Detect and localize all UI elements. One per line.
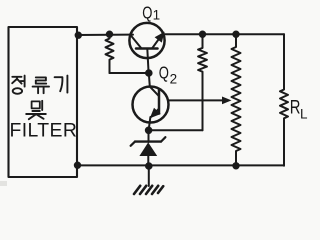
svg-text:FILTER: FILTER [10,119,79,141]
transistor Q1 [129,23,164,73]
svg-text:L: L [300,107,308,122]
scan smudge [0,181,7,186]
wiper arrowhead [222,97,232,105]
junction dot VR top [233,32,238,37]
resistor R1 [106,34,114,73]
transistor Q2 [133,73,169,130]
junction dot ground node [146,163,152,169]
label 정류기 (gi) [55,76,68,93]
wire top rail left (input) [77,34,133,36]
junction dot zener top node [146,128,152,134]
node A junction dot [146,70,152,76]
svg-text:2: 2 [170,71,178,86]
label 정류기 (ryu) [33,77,49,93]
potentiometer VR [232,34,241,166]
label 및 [26,101,46,119]
rectifier/filter box [9,27,78,177]
load branch wire + resistor RL [280,34,288,166]
wire R1 bottom to node A [110,72,150,74]
junction dot input+ terminal [76,33,81,38]
wire Q2 base to potentiometer wiper [169,99,224,101]
junction dot R1 top [107,32,112,37]
wire top rail right (output) [164,33,284,35]
svg-text:Q: Q [142,4,152,23]
junction dot VR bottom [233,163,238,168]
junction dot input- terminal [75,163,80,168]
ground symbol [134,186,163,194]
resistor R2 [198,34,207,130]
zener diode D1 [131,130,166,166]
junction dot R2 top [200,32,205,37]
svg-text:1: 1 [153,8,161,23]
label 정류기 (jeong) [12,76,24,94]
wire bottom rail [77,164,284,166]
wire R2 bottom to zener node [149,129,203,131]
svg-text:Q: Q [159,64,169,83]
ground lead wire [148,166,150,186]
svg-text:R: R [290,97,301,118]
